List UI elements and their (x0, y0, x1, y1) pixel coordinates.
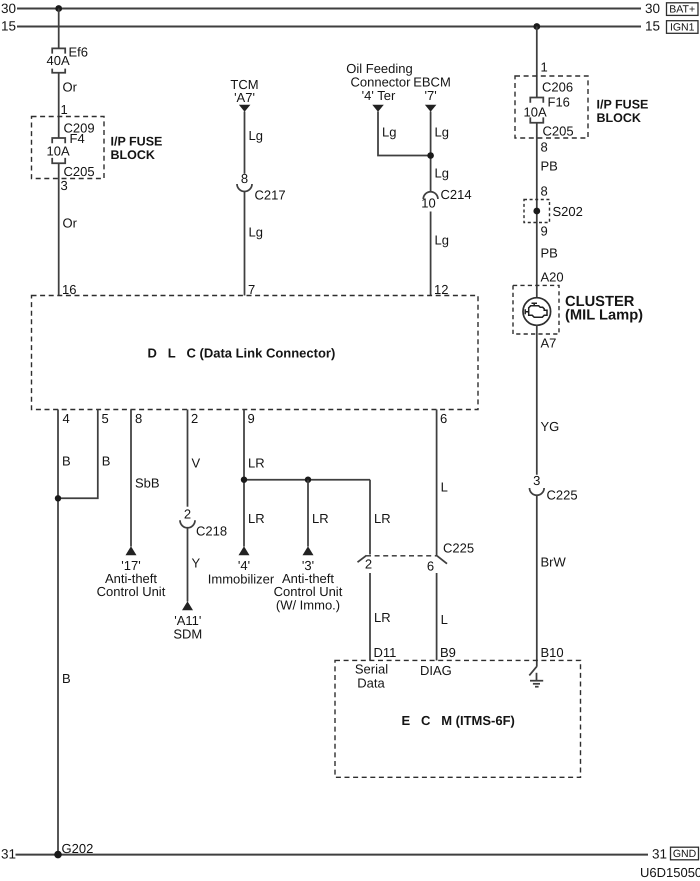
MIL engine icon (525, 303, 547, 317)
svg-text:8: 8 (541, 184, 548, 199)
svg-text:Lg: Lg (249, 225, 263, 240)
svg-text:10A: 10A (524, 105, 547, 120)
svg-text:30: 30 (645, 1, 660, 16)
wire F4 to DLC pin16 (Or) (58, 163, 60, 295)
svg-text:L: L (441, 480, 448, 495)
wire bus15 to fuse F16 (536, 27, 538, 98)
svg-text:V: V (192, 456, 201, 471)
arrow from Oil Feeding Connector (372, 105, 384, 112)
CLUSTER box (513, 285, 559, 334)
svg-text:31: 31 (652, 846, 667, 861)
svg-text:10A: 10A (47, 144, 70, 159)
junction LR pin9 (241, 477, 247, 483)
svg-text:9: 9 (541, 224, 548, 239)
svg-text:Lg: Lg (435, 125, 449, 140)
wire Oil Feeding to junction (Lg) (378, 112, 431, 156)
svg-text:B: B (62, 454, 71, 469)
arrow to '17' Anti-theft Control Unit (126, 546, 137, 555)
svg-text:IGN1: IGN1 (670, 22, 695, 34)
svg-text:1: 1 (541, 60, 548, 75)
svg-text:GND: GND (673, 848, 697, 860)
wire DLC pin5 to pin4 wire (B) (58, 410, 98, 499)
svg-text:4: 4 (63, 411, 70, 426)
svg-text:LR: LR (374, 511, 391, 526)
svg-text:15: 15 (1, 19, 16, 34)
I/P FUSE BLOCK box left (32, 117, 105, 179)
label I/P FUSE BLOCK left (111, 135, 163, 163)
svg-text:S202: S202 (553, 204, 583, 219)
wire branch to '3' Anti-theft (LR) (307, 480, 309, 547)
ECM box (335, 660, 581, 777)
connector C225 inline dashed (358, 555, 448, 563)
label I/P FUSE BLOCK right (597, 98, 649, 126)
svg-text:5: 5 (102, 411, 109, 426)
svg-text:LR: LR (374, 610, 391, 625)
junction B wires (55, 495, 61, 501)
svg-text:Lg: Lg (435, 233, 449, 248)
junction Lg wires (427, 152, 434, 159)
svg-text:6: 6 (427, 559, 434, 574)
svg-text:31: 31 (1, 846, 16, 861)
fuse F4 10A (52, 138, 65, 163)
svg-text:3: 3 (533, 473, 540, 488)
svg-text:PB: PB (541, 159, 558, 174)
fuse Ef6 40A (52, 48, 65, 72)
svg-text:8: 8 (541, 140, 548, 155)
ground inside ECM (529, 666, 543, 687)
node GND tag box (671, 847, 699, 860)
svg-text:B10: B10 (541, 645, 564, 660)
svg-text:C205: C205 (543, 124, 574, 139)
svg-text:YG: YG (541, 419, 560, 434)
svg-text:8: 8 (135, 411, 142, 426)
svg-text:2: 2 (184, 507, 191, 522)
junction S202 (533, 208, 540, 215)
connector C217 (237, 184, 252, 192)
svg-text:A7: A7 (541, 336, 557, 351)
wire bus 15 IGN1 (17, 26, 641, 28)
arrow to '4' Immobilizer (239, 546, 250, 555)
svg-text:U6D15050: U6D15050 (640, 865, 700, 880)
svg-text:I/P FUSE: I/P FUSE (597, 98, 649, 112)
svg-text:F4: F4 (70, 131, 85, 146)
svg-text:2: 2 (191, 411, 198, 426)
wire cluster to C225 (YG) (536, 325, 538, 475)
svg-text:LR: LR (248, 456, 265, 471)
junction on bus 30 (55, 5, 62, 12)
svg-text:Serial: Serial (355, 662, 388, 677)
wire DLC pin9 to Immobilizer (LR) (243, 410, 245, 547)
wire C214 to DLC pin12 (Lg) (430, 212, 432, 296)
svg-text:F16: F16 (548, 95, 570, 110)
svg-text:15: 15 (645, 19, 660, 34)
node '3' Anti-theft Control Unit (W/ Immo.) label (274, 558, 343, 613)
svg-text:C218: C218 (196, 524, 227, 539)
label CLUSTER (MIL Lamp) (565, 294, 643, 324)
svg-text:10: 10 (421, 196, 435, 211)
svg-text:LR: LR (248, 511, 265, 526)
wire C225 to ECM D11 (LR) (369, 573, 371, 660)
node IGN1 tag box (667, 21, 699, 34)
wire DLC pin4 to G202 (B) (57, 410, 59, 855)
svg-text:A20: A20 (541, 270, 564, 285)
svg-text:9: 9 (248, 411, 255, 426)
svg-text:D11: D11 (374, 645, 397, 660)
svg-text:Y: Y (192, 556, 201, 571)
junction LR branch '3' (305, 477, 311, 483)
svg-text:Immobilizer: Immobilizer (208, 572, 275, 587)
node 'A11' SDM label (173, 613, 202, 642)
wire DLC pin6 to C225 (L) (436, 410, 438, 556)
svg-text:C206: C206 (542, 80, 573, 95)
wire DLC pin2 to C218 (V) (187, 410, 189, 507)
label Serial Data (355, 662, 388, 691)
svg-text:'4' Ter: '4' Ter (362, 88, 396, 103)
wire bus 30 BAT+ (17, 8, 641, 10)
connector C214 (423, 192, 438, 199)
svg-text:LR: LR (312, 511, 329, 526)
svg-text:L: L (441, 612, 448, 627)
svg-text:G202: G202 (62, 841, 94, 856)
wire EBCM down (Lg) (430, 112, 432, 192)
svg-text:BLOCK: BLOCK (111, 148, 155, 162)
wire bus 31 GND (16, 854, 649, 856)
svg-text:Ef6: Ef6 (69, 45, 89, 60)
node '4' Immobilizer label (208, 558, 275, 587)
svg-text:E C M (ITMS-6F): E C M (ITMS-6F) (402, 713, 515, 728)
wire bus30 to fuse Ef6 (58, 9, 60, 49)
svg-text:(MIL Lamp): (MIL Lamp) (565, 308, 643, 324)
node TCM 'A7' label (230, 77, 258, 105)
node Oil Feeding Connector label (346, 61, 412, 103)
wire Ef6 to fuse F4 (Or) (58, 73, 60, 138)
svg-text:B9: B9 (440, 645, 456, 660)
svg-text:Or: Or (63, 80, 78, 95)
svg-text:2: 2 (365, 557, 372, 572)
svg-text:SDM: SDM (173, 627, 202, 642)
svg-text:D L C (Data Link Connector: D L C (Data Link Connector) (148, 345, 336, 360)
node '17' Anti-theft Control Unit label (97, 558, 166, 599)
arrow to 'A11' SDM (182, 601, 193, 610)
node EBCM '7' label (413, 75, 451, 104)
wire C225 to ECM B9 (L) (436, 573, 438, 660)
svg-text:40A: 40A (47, 53, 70, 68)
svg-text:BrW: BrW (541, 555, 567, 570)
svg-text:C205: C205 (64, 164, 95, 179)
wire C217 to DLC pin7 (Lg) (244, 192, 246, 296)
arrow from EBCM (425, 105, 437, 112)
svg-text:C225: C225 (547, 488, 578, 503)
svg-text:3: 3 (61, 178, 68, 193)
svg-text:C217: C217 (255, 188, 286, 203)
connector DLC box (32, 296, 479, 410)
svg-text:7: 7 (248, 282, 255, 297)
svg-text:12: 12 (434, 282, 448, 297)
svg-text:'7': '7' (424, 88, 436, 103)
wire C225 to ECM B10 (BrW) (536, 495, 538, 666)
svg-text:6: 6 (440, 411, 447, 426)
arrow from TCM (239, 105, 251, 112)
wire TCM to C217 (Lg) (244, 112, 246, 174)
I/P FUSE BLOCK box right (515, 76, 588, 138)
svg-text:B: B (102, 454, 111, 469)
wire LR branch horizontal (244, 479, 370, 481)
svg-text:B: B (62, 671, 71, 686)
svg-text:Lg: Lg (249, 128, 263, 143)
node BAT+ tag box (667, 3, 699, 16)
svg-text:PB: PB (541, 246, 558, 261)
svg-text:16: 16 (62, 282, 76, 297)
svg-text:Data: Data (357, 676, 385, 691)
svg-text:DIAG: DIAG (420, 663, 452, 678)
svg-text:(W/ Immo.): (W/ Immo.) (276, 598, 340, 613)
svg-text:Or: Or (63, 216, 78, 231)
lamp MIL circle (523, 298, 551, 326)
junction G202 on bus 31 (54, 851, 62, 859)
wire DLC pin8 to Anti-theft (SbB) (130, 410, 132, 547)
svg-text:Control Unit: Control Unit (97, 584, 166, 599)
connector C225 (530, 488, 545, 495)
svg-text:I/P FUSE: I/P FUSE (111, 135, 163, 149)
svg-text:8: 8 (241, 171, 248, 186)
arrow to '3' Anti-theft Control Unit (303, 546, 314, 555)
svg-text:30: 30 (1, 1, 16, 16)
wire F16 to cluster (PB) (536, 123, 538, 298)
wire LR branch to C225 pin2 (369, 480, 371, 555)
splice S202 box (524, 200, 550, 223)
svg-text:'A7': 'A7' (234, 90, 255, 105)
svg-text:1: 1 (61, 102, 68, 117)
svg-text:SbB: SbB (135, 476, 160, 491)
connector C218 (180, 520, 195, 528)
svg-text:BLOCK: BLOCK (597, 111, 641, 125)
svg-text:C214: C214 (441, 187, 472, 202)
junction on bus 15 (533, 23, 540, 30)
svg-text:C225: C225 (443, 541, 474, 556)
svg-text:Lg: Lg (382, 125, 396, 140)
fuse F16 10A (530, 98, 543, 123)
svg-text:BAT+: BAT+ (669, 4, 695, 16)
wire C218 to SDM (Y) (187, 528, 189, 602)
svg-text:Lg: Lg (435, 166, 449, 181)
